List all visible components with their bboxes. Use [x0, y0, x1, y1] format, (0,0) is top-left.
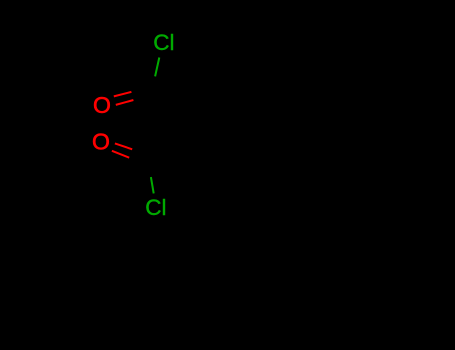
svg-text:Cl: Cl: [153, 30, 174, 55]
svg-text:O: O: [92, 128, 110, 154]
svg-text:Cl: Cl: [145, 195, 166, 220]
double bond C2=O lower red line: [112, 151, 129, 158]
wire: black carbon skeleton substituent bonds (invisible on black): [187, 100, 310, 220]
bond C2-Cl (green half): [151, 177, 154, 193]
wire: black carbon skeleton bond C1-C2 (central carbon, invisible on black): [148, 88, 187, 158]
node: phenyl ring (black, invisible on black): [232, 230, 330, 330]
double bond C1=O upper red line: [114, 92, 132, 97]
double bond C1=O lower red line: [116, 100, 134, 105]
double bond C2=O upper red line: [115, 143, 132, 149]
svg-text:O: O: [93, 92, 111, 118]
bond C1-Cl (green half): [155, 58, 159, 77]
